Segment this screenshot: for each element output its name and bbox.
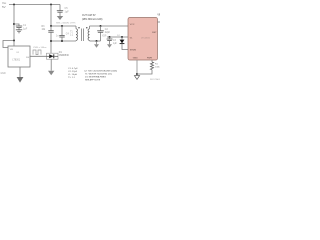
node junction snubber C top bbox=[61, 25, 63, 27]
value label T1 bbox=[70, 31, 74, 36]
node junction snubber C bottom bbox=[61, 40, 63, 42]
node junction SW-top bbox=[13, 40, 15, 42]
secondary winding bbox=[89, 26, 91, 29]
svg-text:X5R: X5R bbox=[102, 36, 107, 38]
node junction COUT top bbox=[100, 25, 102, 27]
svg-text:GND: GND bbox=[1, 73, 6, 75]
svg-text:SW: SW bbox=[26, 57, 29, 59]
svg-text:SEE APP NOTE: SEE APP NOTE bbox=[85, 78, 101, 81]
svg-text:VIN: VIN bbox=[157, 15, 160, 17]
svg-text:100k: 100k bbox=[155, 67, 160, 69]
svg-text:T1: WURTH 750313734 (1:1): T1: WURTH 750313734 (1:1) bbox=[85, 73, 112, 75]
zener D2 bbox=[120, 37, 128, 50]
svg-text:BST: BST bbox=[152, 32, 157, 34]
ground U2 (open triangle) bbox=[134, 76, 139, 80]
wire primary top rail bbox=[51, 5, 76, 27]
value label component notes bbox=[68, 68, 78, 79]
node junction VIN-snubber bbox=[50, 4, 52, 6]
svg-text:1µF: 1µF bbox=[65, 10, 70, 13]
svg-text:SHDN: SHDN bbox=[130, 50, 137, 52]
svg-text:3631 TA01: 3631 TA01 bbox=[150, 78, 160, 81]
wire VIN to IC pin bbox=[13, 41, 15, 47]
wire BST stub bbox=[158, 21, 161, 23]
svg-text:C2: 22µF: C2: 22µF bbox=[68, 71, 78, 73]
value label C1 bbox=[23, 24, 28, 31]
node junction C1 tap bbox=[13, 23, 15, 25]
svg-text:fSW = 300kHz (TYP): fSW = 300kHz (TYP) bbox=[56, 23, 76, 25]
wire SW vertical bbox=[50, 41, 52, 53]
ground arrow D1 bbox=[48, 71, 54, 75]
phasing dot primary bbox=[78, 27, 79, 28]
svg-text:NSR0530: NSR0530 bbox=[59, 55, 70, 57]
wire SW out bbox=[30, 55, 47, 57]
node junction U2 gnd bbox=[136, 73, 138, 75]
value label C2 bbox=[102, 29, 111, 37]
svg-text:1µF: 1µF bbox=[113, 43, 118, 45]
primary winding bbox=[75, 26, 77, 29]
ground arrow IC bbox=[17, 77, 24, 83]
node junction snubber R top bbox=[50, 25, 52, 27]
node VIN label bbox=[2, 1, 7, 9]
svg-text:C1: 4.7µF: C1: 4.7µF bbox=[68, 68, 78, 70]
capacitor C5 bbox=[57, 5, 63, 13]
diode D1 bbox=[47, 53, 59, 70]
wire secondary top rail bbox=[90, 25, 129, 27]
svg-text:VSW = 140ns: VSW = 140ns bbox=[33, 47, 47, 49]
wire VIN vertical bbox=[13, 5, 15, 41]
op-amp U1 (IC box LT8301) bbox=[8, 46, 30, 67]
transformer T1 bbox=[76, 26, 90, 41]
svg-text:C2: TDK C3216X5R1E226M (1206): C2: TDK C3216X5R1E226M (1206) bbox=[84, 70, 117, 72]
wire primary bottom rail bbox=[51, 40, 76, 42]
svg-text:5V: 5V bbox=[2, 5, 6, 9]
svg-text:L1: 10µH: L1: 10µH bbox=[68, 74, 77, 76]
wire VCC rail bbox=[107, 36, 128, 38]
wire secondary gnd rail bbox=[90, 40, 101, 42]
svg-text:LTC2631: LTC2631 bbox=[141, 37, 151, 39]
wire U2 GND bbox=[136, 60, 138, 74]
svg-text:(MIN 300mA LOAD): (MIN 300mA LOAD) bbox=[82, 18, 103, 21]
capacitor C4 (snubber) bbox=[59, 26, 64, 41]
svg-text:VIN: VIN bbox=[10, 49, 14, 51]
node junction VIN-C1 bbox=[13, 4, 15, 6]
resistor R1 (FB) bbox=[137, 60, 154, 74]
value label R1 bbox=[155, 64, 161, 69]
ground C1 (IEC bars) bbox=[16, 30, 22, 33]
capacitor C1 bbox=[14, 24, 22, 30]
svg-text:22µF: 22µF bbox=[105, 32, 111, 34]
core bbox=[82, 29, 84, 42]
node junction zener bbox=[121, 36, 123, 38]
node junction sec gnd bbox=[96, 40, 98, 42]
ground arrow C3 bbox=[107, 44, 112, 48]
value label VOUT note bbox=[82, 14, 103, 21]
value label C5 bbox=[65, 7, 70, 13]
phasing dot secondary bbox=[86, 27, 87, 28]
waveform glyph bbox=[33, 50, 41, 55]
capacitor C2 (output) bbox=[97, 26, 104, 41]
capacitor C3 bbox=[107, 37, 113, 44]
value label R3 bbox=[42, 26, 47, 31]
wire IC GND bbox=[19, 67, 21, 77]
node junction snubber R bottom bbox=[50, 40, 52, 42]
svg-text:1µF: 1µF bbox=[23, 28, 28, 31]
op-amp U2 (red IC block) bbox=[128, 18, 158, 61]
svg-text:FB/R: FB/R bbox=[147, 57, 152, 59]
value label C3 bbox=[113, 40, 118, 45]
wire EN loop bbox=[3, 41, 14, 48]
svg-text:GND: GND bbox=[133, 57, 138, 59]
value label D1 bbox=[59, 52, 70, 57]
svg-text:T1: 1:1: T1: 1:1 bbox=[68, 77, 76, 79]
resistor R3 (snubber) bbox=[48, 26, 53, 41]
node junction C3 bbox=[109, 36, 111, 38]
wire top rail bbox=[9, 4, 60, 6]
svg-text:D1: NEXPERIA PMEG: D1: NEXPERIA PMEG bbox=[85, 75, 106, 78]
svg-text:LT8301: LT8301 bbox=[12, 60, 20, 62]
svg-text:VCC: VCC bbox=[130, 24, 135, 26]
ground arrow secondary bbox=[94, 41, 99, 48]
value label numbered notes bbox=[84, 70, 117, 81]
svg-text:OUT CAP 5V: OUT CAP 5V bbox=[82, 14, 96, 17]
ground arrow C5 bbox=[57, 12, 63, 20]
